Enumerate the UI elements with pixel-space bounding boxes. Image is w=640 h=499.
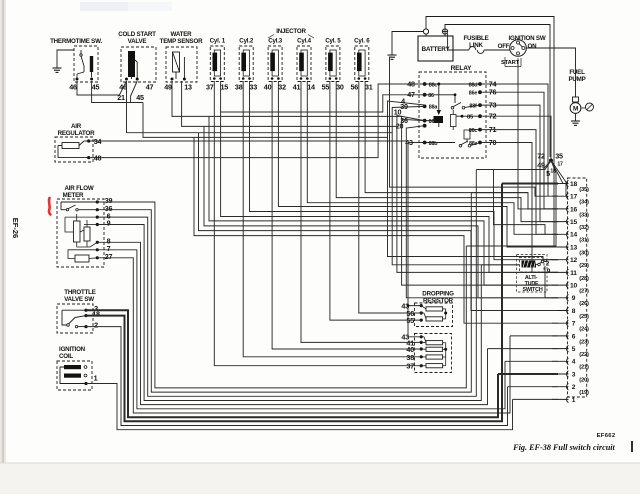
svg-text:INJECTOR: INJECTOR xyxy=(276,28,306,35)
svg-text:(35): (35) xyxy=(579,187,589,193)
svg-text:32: 32 xyxy=(278,83,286,92)
svg-text:9: 9 xyxy=(572,295,576,302)
svg-text:(24): (24) xyxy=(579,327,589,333)
svg-text:30: 30 xyxy=(336,83,344,92)
svg-text:LINK: LINK xyxy=(469,42,483,49)
svg-text:55: 55 xyxy=(322,83,330,92)
svg-text:VALVE: VALVE xyxy=(128,38,147,45)
svg-text:PUMP: PUMP xyxy=(568,76,585,83)
svg-text:33: 33 xyxy=(249,83,257,92)
svg-text:14: 14 xyxy=(570,232,577,239)
svg-text:Cyl. 1: Cyl. 1 xyxy=(210,38,226,45)
svg-text:88b: 88b xyxy=(429,141,439,147)
svg-text:REGULATOR: REGULATOR xyxy=(58,130,96,137)
svg-text:1: 1 xyxy=(94,374,98,383)
svg-text:37: 37 xyxy=(206,83,214,92)
svg-text:(26): (26) xyxy=(579,301,589,307)
svg-text:(23): (23) xyxy=(579,339,589,345)
svg-text:Cyl.2: Cyl.2 xyxy=(239,38,254,45)
svg-text:31: 31 xyxy=(365,83,373,92)
svg-text:FUEL: FUEL xyxy=(569,69,585,76)
svg-text:3: 3 xyxy=(572,371,576,378)
svg-text:(34): (34) xyxy=(579,200,589,206)
svg-text:11: 11 xyxy=(570,270,577,277)
svg-text:4: 4 xyxy=(572,359,576,366)
svg-text:40: 40 xyxy=(264,83,272,92)
svg-text:5: 5 xyxy=(572,346,576,353)
svg-text:17: 17 xyxy=(570,194,577,201)
svg-text:85: 85 xyxy=(467,114,474,120)
svg-text:(28): (28) xyxy=(579,276,589,282)
svg-text:18: 18 xyxy=(570,181,577,188)
svg-text:M: M xyxy=(573,106,578,113)
svg-text:EF-26: EF-26 xyxy=(11,218,20,238)
svg-text:7: 7 xyxy=(572,321,576,328)
svg-text:VALVE SW: VALVE SW xyxy=(64,296,94,303)
svg-text:(32): (32) xyxy=(579,225,589,231)
svg-text:BATTERY: BATTERY xyxy=(421,46,450,53)
svg-text:RESISTOR: RESISTOR xyxy=(423,298,454,305)
svg-text:35: 35 xyxy=(555,152,563,161)
svg-text:38: 38 xyxy=(235,83,243,92)
svg-text:13: 13 xyxy=(184,83,192,92)
svg-text:88c: 88c xyxy=(429,83,438,89)
svg-text:COLD START: COLD START xyxy=(118,31,156,38)
svg-text:ON: ON xyxy=(528,43,538,50)
svg-text:15: 15 xyxy=(570,219,577,226)
svg-text:2: 2 xyxy=(572,384,576,391)
svg-text:49: 49 xyxy=(164,83,172,92)
svg-text:2: 2 xyxy=(94,320,98,329)
svg-text:17: 17 xyxy=(557,162,563,168)
svg-text:37: 37 xyxy=(406,362,414,371)
svg-text:EF662: EF662 xyxy=(597,433,616,439)
svg-text:(21): (21) xyxy=(579,365,589,371)
svg-text:START: START xyxy=(501,60,520,66)
svg-text:27: 27 xyxy=(105,252,113,261)
svg-text:Cyl. 6: Cyl. 6 xyxy=(354,38,370,45)
svg-text:(20): (20) xyxy=(579,377,589,383)
svg-text:IGNITION: IGNITION xyxy=(59,346,86,353)
svg-text:86e: 86e xyxy=(469,91,478,97)
svg-text:1: 1 xyxy=(572,397,576,404)
svg-text:45: 45 xyxy=(136,93,144,102)
svg-text:FUSIBLE: FUSIBLE xyxy=(463,35,488,42)
svg-text:(29): (29) xyxy=(579,263,589,269)
svg-text:46: 46 xyxy=(69,83,77,92)
svg-text:(25): (25) xyxy=(579,314,589,320)
svg-text:DROPPING: DROPPING xyxy=(422,291,454,298)
svg-text:12: 12 xyxy=(570,257,577,264)
svg-text:34: 34 xyxy=(94,137,102,146)
svg-text:10: 10 xyxy=(570,283,577,290)
svg-text:(22): (22) xyxy=(579,352,589,358)
svg-text:21: 21 xyxy=(117,93,125,102)
svg-text:88d: 88d xyxy=(469,83,478,89)
svg-text:16: 16 xyxy=(570,206,577,213)
svg-text:Cyl. 5: Cyl. 5 xyxy=(325,38,341,45)
svg-text:THROTTLE: THROTTLE xyxy=(64,289,95,296)
svg-text:Fig. EF-38 Full switch circui: Fig. EF-38 Full switch circuit xyxy=(512,443,615,452)
svg-text:(30): (30) xyxy=(579,250,589,256)
svg-text:9: 9 xyxy=(107,219,111,228)
svg-text:14: 14 xyxy=(307,83,315,92)
svg-text:47: 47 xyxy=(146,83,154,92)
svg-text:(19): (19) xyxy=(579,390,589,396)
svg-text:(27): (27) xyxy=(579,289,589,295)
svg-text:THERMOTIME SW.: THERMOTIME SW. xyxy=(50,38,102,45)
svg-text:TEMP SENSOR: TEMP SENSOR xyxy=(160,38,203,45)
svg-text:13: 13 xyxy=(570,244,577,251)
svg-text:(33): (33) xyxy=(579,212,589,218)
svg-text:86: 86 xyxy=(428,93,434,99)
svg-text:72: 72 xyxy=(537,152,545,161)
svg-text:15: 15 xyxy=(220,83,228,92)
svg-text:38: 38 xyxy=(406,353,414,362)
svg-text:COIL: COIL xyxy=(59,353,73,360)
svg-text:6: 6 xyxy=(572,333,576,340)
svg-text:OFF: OFF xyxy=(498,43,510,50)
svg-text:49: 49 xyxy=(537,161,545,170)
svg-text:AIR: AIR xyxy=(71,123,82,130)
svg-text:88a: 88a xyxy=(429,105,439,111)
svg-text:18: 18 xyxy=(550,169,556,175)
svg-text:RELAY: RELAY xyxy=(451,65,473,72)
svg-text:(31): (31) xyxy=(579,238,589,244)
svg-text:AIR FLOW: AIR FLOW xyxy=(65,185,94,192)
svg-text:Cyl.3: Cyl.3 xyxy=(268,38,283,45)
svg-text:45: 45 xyxy=(92,83,100,92)
svg-text:56: 56 xyxy=(350,83,358,92)
svg-text:METER: METER xyxy=(63,192,84,199)
svg-text:8: 8 xyxy=(572,308,576,315)
svg-text:41: 41 xyxy=(293,83,301,92)
svg-text:Cyl.4: Cyl.4 xyxy=(297,38,312,45)
svg-text:WATER: WATER xyxy=(171,31,193,38)
